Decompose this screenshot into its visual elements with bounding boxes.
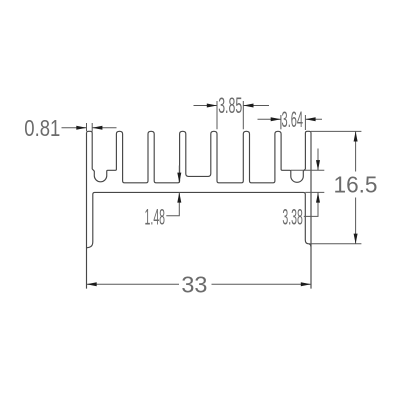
right leg bottom curve — [309, 244, 311, 247]
right leg bottom fillet — [305, 240, 309, 244]
dim 0.81 dimension line right tail — [92, 127, 116, 129]
arrowhead 33 right (points right) — [301, 282, 311, 286]
right outer wall (also 33-dim right extension line) — [310, 133, 312, 289]
svg-text:3.85: 3.85 — [218, 93, 242, 118]
svg-text:3.64: 3.64 — [282, 107, 304, 132]
dim 1.48 leader and up-arrow line — [166, 192, 179, 215]
dim 3.38 underside extension line — [305, 191, 324, 193]
arrowhead 3.85 left (points right) — [207, 104, 217, 108]
arrowhead 3.85 right (points left) — [243, 104, 253, 108]
dim 16.5 dimension line (broken for text) — [355, 131, 357, 171]
arrowhead 0.81 right (points left at x=92.2) — [92, 126, 102, 130]
arrowhead 16.5 top (points up) — [354, 131, 358, 141]
base underside with legs inner edges — [93, 192, 305, 242]
arrowhead 3.64 right (points left) — [305, 117, 315, 121]
svg-text:33: 33 — [181, 271, 207, 297]
dim 0.81 leader + dimension line left — [62, 127, 87, 129]
heatsink profile outline: fin F1 top, screw-port A, fins F2-F7, screw-port G, right wall — [87, 131, 312, 183]
dim 3.64 extension lines — [280, 115, 282, 129]
dim 16.5 bottom extension line — [309, 243, 362, 245]
dim 33 dimension line (broken for text) — [87, 283, 180, 285]
left outer wall (also 33-dim left extension line) — [86, 133, 88, 289]
arrowhead 16.5 bottom (points down) — [354, 234, 358, 244]
dim 3.85 extension lines — [216, 101, 218, 129]
arrowhead 1.48 down (points down at floor) — [177, 173, 181, 183]
dim 3.38 down-arrow line — [317, 149, 319, 171]
dim 0.81 extension lines — [86, 123, 88, 131]
left leg bottom — [87, 242, 93, 248]
arrowhead 3.38 up (points up at underside) — [316, 192, 320, 202]
arrowhead 3.64 left (points right) — [271, 117, 281, 121]
dim 3.38 leader and up-arrow line — [304, 192, 318, 216]
dim 3.85 dimension line left — [194, 105, 218, 107]
dim 3.64 dimension line right — [305, 118, 322, 120]
dim 3.85 dimension line right — [243, 105, 269, 107]
arrowhead 1.48 up (points up at underside) — [177, 192, 181, 202]
dim 3.38 shelf extension line — [291, 169, 325, 171]
dim 3.64 dimension line left — [258, 118, 281, 120]
svg-text:0.81: 0.81 — [24, 115, 60, 141]
arrowhead 3.38 down (points down at shelf) — [316, 160, 320, 170]
svg-text:1.48: 1.48 — [145, 205, 166, 230]
svg-text:16.5: 16.5 — [334, 172, 378, 198]
arrowhead 33 left (points left) — [87, 282, 97, 286]
arrowhead 0.81 left (points right at x=86.5) — [76, 126, 86, 130]
dim 1.48 down-arrow line — [178, 166, 180, 183]
svg-text:3.38: 3.38 — [282, 205, 303, 230]
dim 16.5 top extension line — [311, 130, 361, 132]
